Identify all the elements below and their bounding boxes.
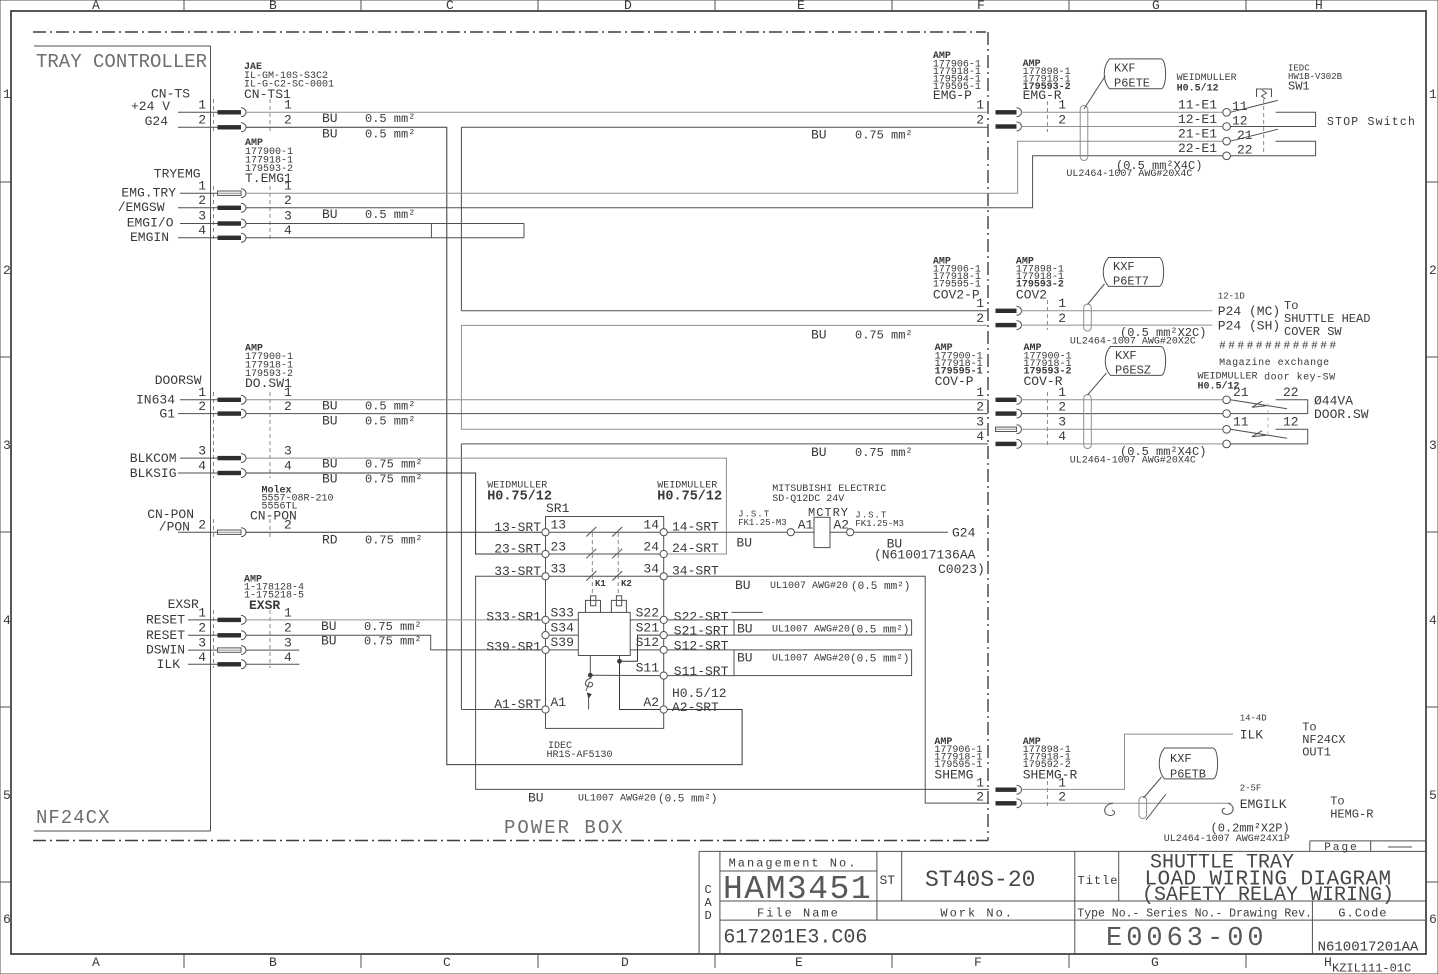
svg-text:6: 6 bbox=[3, 912, 11, 927]
svg-text:2: 2 bbox=[284, 193, 292, 208]
wire COV2-2 to P24(SH) bbox=[1021, 324, 1213, 326]
svg-text:BU: BU bbox=[322, 414, 338, 429]
svg-text:1: 1 bbox=[198, 385, 206, 400]
COV pin 1 crimp contact bbox=[996, 398, 1017, 402]
svg-text:2: 2 bbox=[1058, 311, 1066, 326]
svg-text:2: 2 bbox=[1058, 113, 1066, 128]
svg-text:A1-SRT: A1-SRT bbox=[494, 697, 541, 712]
connector CN-PON (Molex) bbox=[147, 485, 422, 548]
svg-text:EXSR: EXSR bbox=[168, 597, 199, 612]
wire BLKSIG : DO.SW1-4 to SR1 terminal 23 bbox=[246, 473, 542, 554]
svg-text:3: 3 bbox=[198, 636, 206, 651]
svg-text:21: 21 bbox=[1233, 385, 1249, 400]
svg-text:ILK: ILK bbox=[157, 657, 181, 672]
machine enclosure boundary (chain line) bbox=[33, 32, 988, 841]
connector CN-TS1 (JAE) bbox=[131, 62, 415, 142]
connector pair SHEMG / SHEMG-R bbox=[934, 737, 1077, 808]
svg-text:2: 2 bbox=[976, 790, 984, 805]
svg-text:S21-SRT: S21-SRT bbox=[674, 624, 729, 639]
svg-text:TRAY CONTROLLER: TRAY CONTROLLER bbox=[36, 51, 207, 73]
svg-text:P6ETB: P6ETB bbox=[1170, 768, 1206, 782]
svg-text:12: 12 bbox=[1283, 415, 1299, 430]
wire SHEMG-R-2 to EMGILK output bbox=[1021, 802, 1231, 804]
cable marker COV2 (0.5mm2 x2C) bbox=[1070, 304, 1207, 348]
svg-text:Page: Page bbox=[1324, 842, 1358, 854]
COV2 pin 1 crimp contact bbox=[996, 309, 1017, 313]
wire 34-SRT to SHEMG-2 bbox=[667, 576, 989, 803]
MCTRY A2 terminal bbox=[847, 529, 854, 536]
cable balloon KXF P6ET7 bbox=[1088, 258, 1164, 305]
svg-text:S33: S33 bbox=[551, 606, 574, 621]
svg-text:COV2: COV2 bbox=[1016, 288, 1047, 303]
svg-text:S39: S39 bbox=[551, 635, 574, 650]
svg-text:1: 1 bbox=[976, 296, 984, 311]
svg-text:Management No.: Management No. bbox=[729, 857, 858, 871]
svg-text:22: 22 bbox=[1237, 143, 1253, 158]
SR1 terminal circles right column bbox=[660, 529, 667, 714]
svg-text:EMGI/O: EMGI/O bbox=[127, 216, 174, 231]
door sw terminal 11 bbox=[1223, 426, 1231, 434]
svg-text:1: 1 bbox=[284, 179, 292, 194]
terminal 11 bbox=[1223, 109, 1231, 117]
svg-text:H0.5/12: H0.5/12 bbox=[1177, 83, 1219, 95]
svg-text:DOORSW: DOORSW bbox=[155, 373, 202, 388]
svg-text:EXSR: EXSR bbox=[249, 598, 280, 613]
svg-text:0.75 mm²: 0.75 mm² bbox=[364, 620, 422, 634]
svg-text:BU: BU bbox=[322, 207, 338, 222]
MCTRY A1 terminal bbox=[787, 529, 794, 536]
svg-text:F: F bbox=[974, 955, 982, 970]
svg-text:4: 4 bbox=[284, 459, 292, 474]
svg-text:4: 4 bbox=[284, 223, 292, 238]
svg-text:BLKCOM: BLKCOM bbox=[130, 451, 177, 466]
svg-text:21-E1: 21-E1 bbox=[1178, 127, 1217, 142]
TRAY CONTROLLER board outline bbox=[34, 46, 211, 831]
svg-text:0.75 mm²: 0.75 mm² bbox=[855, 446, 913, 460]
T.EMG1 pin 1 crimp contact (outline type) bbox=[218, 191, 242, 195]
svg-text:33-SRT: 33-SRT bbox=[494, 564, 541, 579]
svg-text:34: 34 bbox=[643, 562, 659, 577]
svg-text:RESET: RESET bbox=[146, 613, 185, 628]
svg-text:(0.5 mm²): (0.5 mm²) bbox=[850, 654, 909, 666]
svg-text:0.75 mm²: 0.75 mm² bbox=[855, 129, 913, 143]
svg-text:2: 2 bbox=[976, 311, 984, 326]
safety relay unit SR1 (IDEC HR1S-AF5130) bbox=[487, 481, 722, 762]
svg-text:SHEMG-R: SHEMG-R bbox=[1023, 768, 1078, 783]
svg-text:WEIDMULLER: WEIDMULLER bbox=[1177, 73, 1237, 84]
svg-text:0.5 mm²: 0.5 mm² bbox=[365, 208, 415, 222]
wire +24V : CN-TS1-1 to EMG-P-1 bbox=[246, 111, 988, 113]
wire G1 : DO.SW1-2 to COV-P-2 bbox=[246, 413, 988, 415]
terminal 21 bbox=[1223, 137, 1231, 145]
SW1 plunger bracket bbox=[1257, 89, 1272, 97]
svg-text:UL2464-1007 AWG#24X1P: UL2464-1007 AWG#24X1P bbox=[1164, 834, 1290, 845]
svg-text:COV-P: COV-P bbox=[935, 374, 974, 389]
svg-text:S11-SRT: S11-SRT bbox=[674, 664, 729, 679]
cable balloon KXF P6ESZ bbox=[1088, 347, 1166, 396]
SW1 mechanical linkage bbox=[1263, 99, 1265, 154]
svg-text:0.5 mm²: 0.5 mm² bbox=[365, 400, 415, 414]
SHEMG pin 1 crimp contact bbox=[996, 788, 1017, 792]
svg-text:E0063-00: E0063-00 bbox=[1106, 924, 1268, 954]
svg-text:(N610017136AA: (N610017136AA bbox=[874, 548, 976, 563]
svg-text:1: 1 bbox=[976, 385, 984, 400]
DO.SW1 pin 1 crimp contact bbox=[218, 398, 242, 402]
twisted pair curls on EMGILK wire bbox=[1105, 794, 1233, 820]
svg-text:1: 1 bbox=[1058, 385, 1066, 400]
DO.SW1 pin 3 crimp contact bbox=[218, 456, 242, 460]
svg-text:BU: BU bbox=[737, 651, 753, 666]
svg-text:NF24CX: NF24CX bbox=[36, 807, 110, 829]
DO.SW1 pin 2 crimp contact bbox=[218, 411, 242, 415]
svg-text:2: 2 bbox=[976, 113, 984, 128]
svg-text:2: 2 bbox=[1058, 400, 1066, 415]
svg-text:S39-SR1: S39-SR1 bbox=[486, 640, 541, 655]
wire SHEMG-R-1 to ILK output bbox=[1021, 734, 1233, 789]
svg-text:EMG.TRY: EMG.TRY bbox=[121, 186, 176, 201]
svg-text:HAM3451: HAM3451 bbox=[723, 871, 872, 908]
svg-text:KXF: KXF bbox=[1115, 349, 1137, 363]
svg-text:G24: G24 bbox=[952, 526, 976, 541]
svg-text:C: C bbox=[446, 0, 454, 13]
svg-text:1: 1 bbox=[976, 776, 984, 791]
svg-text:1: 1 bbox=[3, 87, 11, 102]
svg-text:OUT1: OUT1 bbox=[1302, 746, 1331, 760]
terminal 12 bbox=[1223, 123, 1231, 131]
SR1 terminal numbers bbox=[551, 518, 660, 711]
door sw link wires 11-12 bbox=[1230, 429, 1307, 444]
svg-text:RESET: RESET bbox=[146, 628, 185, 643]
svg-text:3: 3 bbox=[3, 438, 11, 453]
wire RESET : EXSR-1 to SR1 S33 bbox=[246, 619, 542, 621]
svg-text:3: 3 bbox=[284, 444, 292, 459]
cable balloon KXF P6ETB bbox=[1144, 748, 1218, 798]
svg-text:H: H bbox=[1324, 955, 1332, 970]
svg-text:EMG-P: EMG-P bbox=[933, 88, 972, 103]
svg-text:COV2-P: COV2-P bbox=[933, 288, 980, 303]
connector T.EMG1 (AMP) bbox=[118, 138, 416, 245]
svg-text:+24 V: +24 V bbox=[131, 99, 170, 114]
svg-text:2-5F: 2-5F bbox=[1240, 784, 1262, 794]
svg-text:ST: ST bbox=[880, 873, 896, 888]
EMG pin 1 crimp contact bbox=[996, 110, 1017, 114]
svg-text:0.75 mm²: 0.75 mm² bbox=[365, 473, 423, 487]
svg-text:DSWIN: DSWIN bbox=[146, 643, 185, 658]
T.EMG1 pin 2 crimp contact bbox=[218, 206, 242, 210]
relay bottom stem to S21/A2 junction bbox=[619, 656, 621, 662]
wire EMG-R-1 to 11-E1 bbox=[1021, 111, 1223, 113]
wire COV-R-1 bbox=[1021, 399, 1223, 401]
svg-text:2: 2 bbox=[198, 399, 206, 414]
svg-text:4: 4 bbox=[976, 429, 984, 444]
svg-text:14-4D: 14-4D bbox=[1240, 714, 1267, 724]
svg-text:UL1007 AWG#20: UL1007 AWG#20 bbox=[578, 794, 656, 805]
svg-text:4: 4 bbox=[198, 459, 206, 474]
COV pin 4 crimp contact bbox=[996, 442, 1017, 446]
svg-text:13: 13 bbox=[551, 518, 567, 533]
EMG pin 2 crimp contact bbox=[996, 124, 1017, 128]
svg-text:UL2464-1007 AWG#20X4C: UL2464-1007 AWG#20X4C bbox=[1070, 456, 1196, 467]
wire RESET : EXSR-2 to SR1 S39 bbox=[246, 635, 542, 650]
wire COV-R-4 bbox=[1021, 443, 1223, 445]
relay contact K1 (dashed linkage with contact strokes) bbox=[586, 527, 606, 594]
svg-text:E: E bbox=[795, 955, 803, 970]
svg-text:P24 (SH): P24 (SH) bbox=[1218, 319, 1280, 334]
svg-text:1: 1 bbox=[1429, 87, 1437, 102]
wire jumper EMGI/O to EMGIN bbox=[246, 224, 524, 238]
svg-text:E: E bbox=[797, 0, 805, 13]
svg-text:/EMGSW: /EMGSW bbox=[118, 200, 165, 215]
svg-text:ST40S-20: ST40S-20 bbox=[925, 867, 1035, 893]
node P24 outputs to shuttle head cover switch bbox=[1218, 292, 1371, 340]
svg-text:BU: BU bbox=[736, 536, 752, 551]
svg-text:KXF: KXF bbox=[1113, 260, 1135, 274]
wire EMG-P-2 to COV2-P-1 chain bbox=[461, 126, 988, 128]
door sw contact arm 21-22 bbox=[1230, 400, 1287, 409]
svg-text:22: 22 bbox=[1283, 385, 1299, 400]
svg-text:S33-SR1: S33-SR1 bbox=[486, 610, 541, 625]
SR1 contact row wires 13-14 / 23-24 / 33-34 bbox=[549, 531, 660, 533]
DO.SW1 pin 4 crimp contact bbox=[218, 471, 242, 475]
svg-text:B: B bbox=[269, 0, 277, 13]
page box bbox=[1310, 840, 1426, 842]
cable marker COV (0.5mm2 x4C) bbox=[1070, 395, 1207, 467]
svg-text:A: A bbox=[705, 896, 713, 910]
CN-TS1 pin 1 crimp contact bbox=[218, 110, 242, 114]
wire COV-P-4 to relay A1 bbox=[461, 443, 988, 445]
svg-text:23-SRT: 23-SRT bbox=[494, 542, 541, 557]
wire COV2-1 to P24(MC) bbox=[1021, 310, 1213, 312]
cable marker SHEMG (0.2mm2 x2P) bbox=[1139, 797, 1290, 846]
svg-text:2: 2 bbox=[198, 621, 206, 636]
svg-text:0.75 mm²: 0.75 mm² bbox=[855, 329, 913, 343]
svg-text:2: 2 bbox=[1429, 263, 1437, 278]
svg-text:24-SRT: 24-SRT bbox=[672, 541, 719, 556]
wire stub DSWIN bbox=[246, 649, 299, 651]
svg-text:BU: BU bbox=[737, 622, 753, 637]
svg-text:BU: BU bbox=[321, 619, 337, 634]
svg-text:G: G bbox=[1152, 0, 1160, 13]
EXSR pin 1 crimp contact bbox=[218, 618, 242, 622]
svg-text:1: 1 bbox=[198, 179, 206, 194]
svg-text:POWER BOX: POWER BOX bbox=[504, 817, 625, 839]
svg-text:S22: S22 bbox=[636, 606, 659, 621]
wire MCTRY A2 to G24 bbox=[854, 531, 948, 533]
door sw linkage bbox=[1267, 403, 1269, 434]
svg-text:S34: S34 bbox=[551, 621, 575, 636]
svg-text:1: 1 bbox=[284, 98, 292, 113]
svg-text:KZIL111-01C: KZIL111-01C bbox=[1332, 962, 1411, 974]
wire junction to A2 bbox=[620, 661, 661, 709]
svg-text:33: 33 bbox=[551, 562, 567, 577]
svg-text:B: B bbox=[269, 955, 277, 970]
svg-text:H0.5/12: H0.5/12 bbox=[672, 686, 727, 701]
svg-text:2: 2 bbox=[198, 113, 206, 128]
svg-text:G24: G24 bbox=[145, 114, 169, 129]
svg-text:UL1007 AWG#20: UL1007 AWG#20 bbox=[770, 581, 848, 592]
svg-text:3: 3 bbox=[976, 415, 984, 430]
svg-text:IN634: IN634 bbox=[136, 393, 175, 408]
svg-text:BU: BU bbox=[735, 578, 751, 593]
cable marker EMG (0.5mm2 x4C) bbox=[1066, 106, 1202, 181]
svg-text:COV-R: COV-R bbox=[1024, 374, 1063, 389]
CN-TS1 pin 2 crimp contact bbox=[218, 125, 242, 129]
svg-text:UL1007 AWG#20: UL1007 AWG#20 bbox=[772, 654, 850, 665]
svg-text:BU: BU bbox=[322, 111, 338, 126]
door sw contact arm 11-12 bbox=[1230, 429, 1287, 438]
svg-text:0.5 mm²: 0.5 mm² bbox=[365, 415, 415, 429]
svg-text:4: 4 bbox=[1429, 613, 1437, 628]
relay bottom stem to S11/A1 with test squiggle bbox=[589, 656, 591, 676]
svg-text:TRYEMG: TRYEMG bbox=[154, 167, 201, 182]
door sw terminal 12 row circle bbox=[1223, 440, 1231, 448]
SW1 contact arm 11-12 bbox=[1230, 100, 1278, 112]
wire 33-SRT to SHEMG-1 bbox=[476, 576, 989, 789]
connector EXSR (AMP) bbox=[146, 575, 422, 673]
svg-text:D: D bbox=[624, 0, 632, 13]
svg-text:2: 2 bbox=[198, 518, 206, 533]
svg-text:G: G bbox=[1151, 955, 1159, 970]
svg-text:A1: A1 bbox=[798, 518, 814, 533]
svg-text:H0.75/12: H0.75/12 bbox=[487, 490, 552, 505]
svg-text:4: 4 bbox=[1058, 429, 1066, 444]
svg-text:4: 4 bbox=[198, 223, 206, 238]
svg-text:3: 3 bbox=[198, 444, 206, 459]
svg-text:Work No.: Work No. bbox=[940, 907, 1014, 921]
SW1 link wires 21-22 bbox=[1230, 141, 1315, 156]
svg-text:BU: BU bbox=[322, 399, 338, 414]
wire /PON : CN-PON-2 to SR1 terminal 13 bbox=[246, 531, 542, 533]
svg-text:2: 2 bbox=[1058, 790, 1066, 805]
relay coil K2 symbol bbox=[611, 596, 626, 613]
svg-text:P6ETE: P6ETE bbox=[1114, 77, 1150, 91]
svg-text:617201E3.C06: 617201E3.C06 bbox=[723, 927, 867, 950]
svg-text:0.75 mm²: 0.75 mm² bbox=[364, 635, 422, 649]
wire COV-R-3 bbox=[1021, 428, 1223, 430]
svg-text:A2: A2 bbox=[643, 695, 659, 710]
svg-text:1: 1 bbox=[976, 98, 984, 113]
svg-text:To: To bbox=[1330, 795, 1344, 809]
COV pin 3 crimp contact (outline type) bbox=[996, 427, 1017, 431]
svg-text:24: 24 bbox=[643, 540, 659, 555]
SW1 link wires 11-12 bbox=[1230, 112, 1315, 126]
S12-S11 jumper loop with cable label bbox=[667, 650, 911, 676]
SR1 terminal circles left column bbox=[542, 529, 549, 714]
SR1 internal wiring S33/S34/S39 bbox=[549, 619, 578, 621]
svg-text:2: 2 bbox=[284, 518, 292, 533]
svg-text:F: F bbox=[977, 0, 985, 13]
svg-text:2: 2 bbox=[284, 621, 292, 636]
svg-text:K2: K2 bbox=[621, 579, 632, 589]
svg-text:FK1.25-M3: FK1.25-M3 bbox=[855, 519, 904, 529]
svg-text:DOOR.SW: DOOR.SW bbox=[1314, 407, 1369, 422]
svg-text:D: D bbox=[705, 909, 712, 923]
relay coil K1 symbol bbox=[586, 596, 601, 613]
svg-text:3: 3 bbox=[284, 636, 292, 651]
svg-text:0.5 mm²: 0.5 mm² bbox=[365, 112, 415, 126]
cable balloon KXF P6ETE bbox=[1084, 59, 1166, 109]
EXSR pin 2 crimp contact bbox=[218, 633, 242, 637]
svg-text:P6ESZ: P6ESZ bbox=[1115, 364, 1151, 378]
COV2 pin 2 crimp contact bbox=[996, 323, 1017, 327]
svg-text:5: 5 bbox=[1429, 788, 1437, 803]
svg-text:A1: A1 bbox=[551, 695, 567, 710]
svg-text:0.75 mm²: 0.75 mm² bbox=[365, 458, 423, 472]
SR1 wire name labels bbox=[486, 520, 728, 716]
svg-text:SHUTTLE HEAD: SHUTTLE HEAD bbox=[1284, 312, 1370, 326]
terminal block WEIDMULLER H0.5/12 (EMG) bbox=[1177, 73, 1253, 160]
svg-text:BU: BU bbox=[811, 328, 827, 343]
connector pair COV-P / COV-R bbox=[811, 343, 1223, 460]
svg-text:Magazine exchange: Magazine exchange bbox=[1219, 357, 1330, 369]
svg-text:G1: G1 bbox=[159, 407, 175, 422]
MCTRY coil body bbox=[814, 517, 830, 547]
svg-text:0.75 mm²: 0.75 mm² bbox=[365, 534, 423, 548]
svg-text:3: 3 bbox=[284, 209, 292, 224]
svg-text:SD-Q12DC 24V: SD-Q12DC 24V bbox=[772, 494, 844, 505]
svg-text:P24 (MC): P24 (MC) bbox=[1218, 304, 1280, 319]
svg-text:Title: Title bbox=[1078, 874, 1119, 888]
svg-text:P6ET7: P6ET7 bbox=[1113, 275, 1149, 289]
relay body HR1S-AF5130 bbox=[578, 612, 630, 655]
svg-text:2: 2 bbox=[284, 113, 292, 128]
svg-text:STOP Switch: STOP Switch bbox=[1327, 116, 1416, 129]
svg-text:12-E1: 12-E1 bbox=[1178, 112, 1217, 127]
svg-text:2: 2 bbox=[198, 193, 206, 208]
wire /EMGSW : T.EMG1-2 to terminal 22-E1 bbox=[246, 156, 1223, 208]
svg-text:BU: BU bbox=[322, 457, 338, 472]
svg-text:(0.5 mm²): (0.5 mm²) bbox=[851, 581, 910, 593]
COV pin 2 crimp contact bbox=[996, 411, 1017, 415]
EXSR pin 3 crimp contact (outline type) bbox=[218, 648, 242, 652]
svg-text:1: 1 bbox=[1058, 776, 1066, 791]
svg-text:N610017201AA: N610017201AA bbox=[1318, 940, 1419, 956]
CN-PON pin 2 crimp contact (outline type) bbox=[218, 530, 242, 534]
svg-text:13-SRT: 13-SRT bbox=[494, 520, 541, 535]
svg-text:ILK: ILK bbox=[1240, 728, 1264, 743]
svg-text:22-E1: 22-E1 bbox=[1178, 141, 1217, 156]
svg-text:H0.75/12: H0.75/12 bbox=[657, 490, 722, 505]
SR1 internal wiring S22/S12 bbox=[630, 619, 660, 621]
wire COV-R-2 bbox=[1021, 413, 1223, 415]
svg-text:21: 21 bbox=[1237, 128, 1253, 143]
magazine door key switch (Weidmuller terminals + contacts) bbox=[1198, 341, 1369, 448]
SHEMG pin 2 crimp contact bbox=[996, 801, 1017, 805]
svg-text:H: H bbox=[1315, 0, 1323, 13]
svg-text:4: 4 bbox=[198, 650, 206, 665]
svg-text:3: 3 bbox=[198, 209, 206, 224]
EXSR pin 4 crimp contact bbox=[218, 662, 242, 666]
svg-text:C: C bbox=[705, 883, 712, 897]
svg-text:BU: BU bbox=[811, 445, 827, 460]
svg-text:(0.5 mm²): (0.5 mm²) bbox=[850, 625, 909, 637]
svg-text:C0023): C0023) bbox=[938, 562, 985, 577]
svg-text:File Name: File Name bbox=[757, 907, 840, 921]
svg-text:3: 3 bbox=[1058, 415, 1066, 430]
svg-text:S11: S11 bbox=[636, 661, 660, 676]
wire BLKCOM : DO.SW1-3 to SR1 terminal 24 bbox=[246, 458, 726, 554]
svg-text:3: 3 bbox=[1429, 438, 1437, 453]
svg-text:C: C bbox=[443, 955, 451, 970]
svg-text:KXF: KXF bbox=[1170, 752, 1192, 766]
svg-text:BLKSIG: BLKSIG bbox=[130, 466, 177, 481]
svg-text:2: 2 bbox=[284, 399, 292, 414]
svg-text:BU: BU bbox=[322, 472, 338, 487]
svg-text:A: A bbox=[92, 955, 100, 970]
svg-text:11: 11 bbox=[1233, 415, 1249, 430]
node ILK output bbox=[1240, 714, 1346, 760]
wire stub ILK bbox=[246, 663, 299, 665]
